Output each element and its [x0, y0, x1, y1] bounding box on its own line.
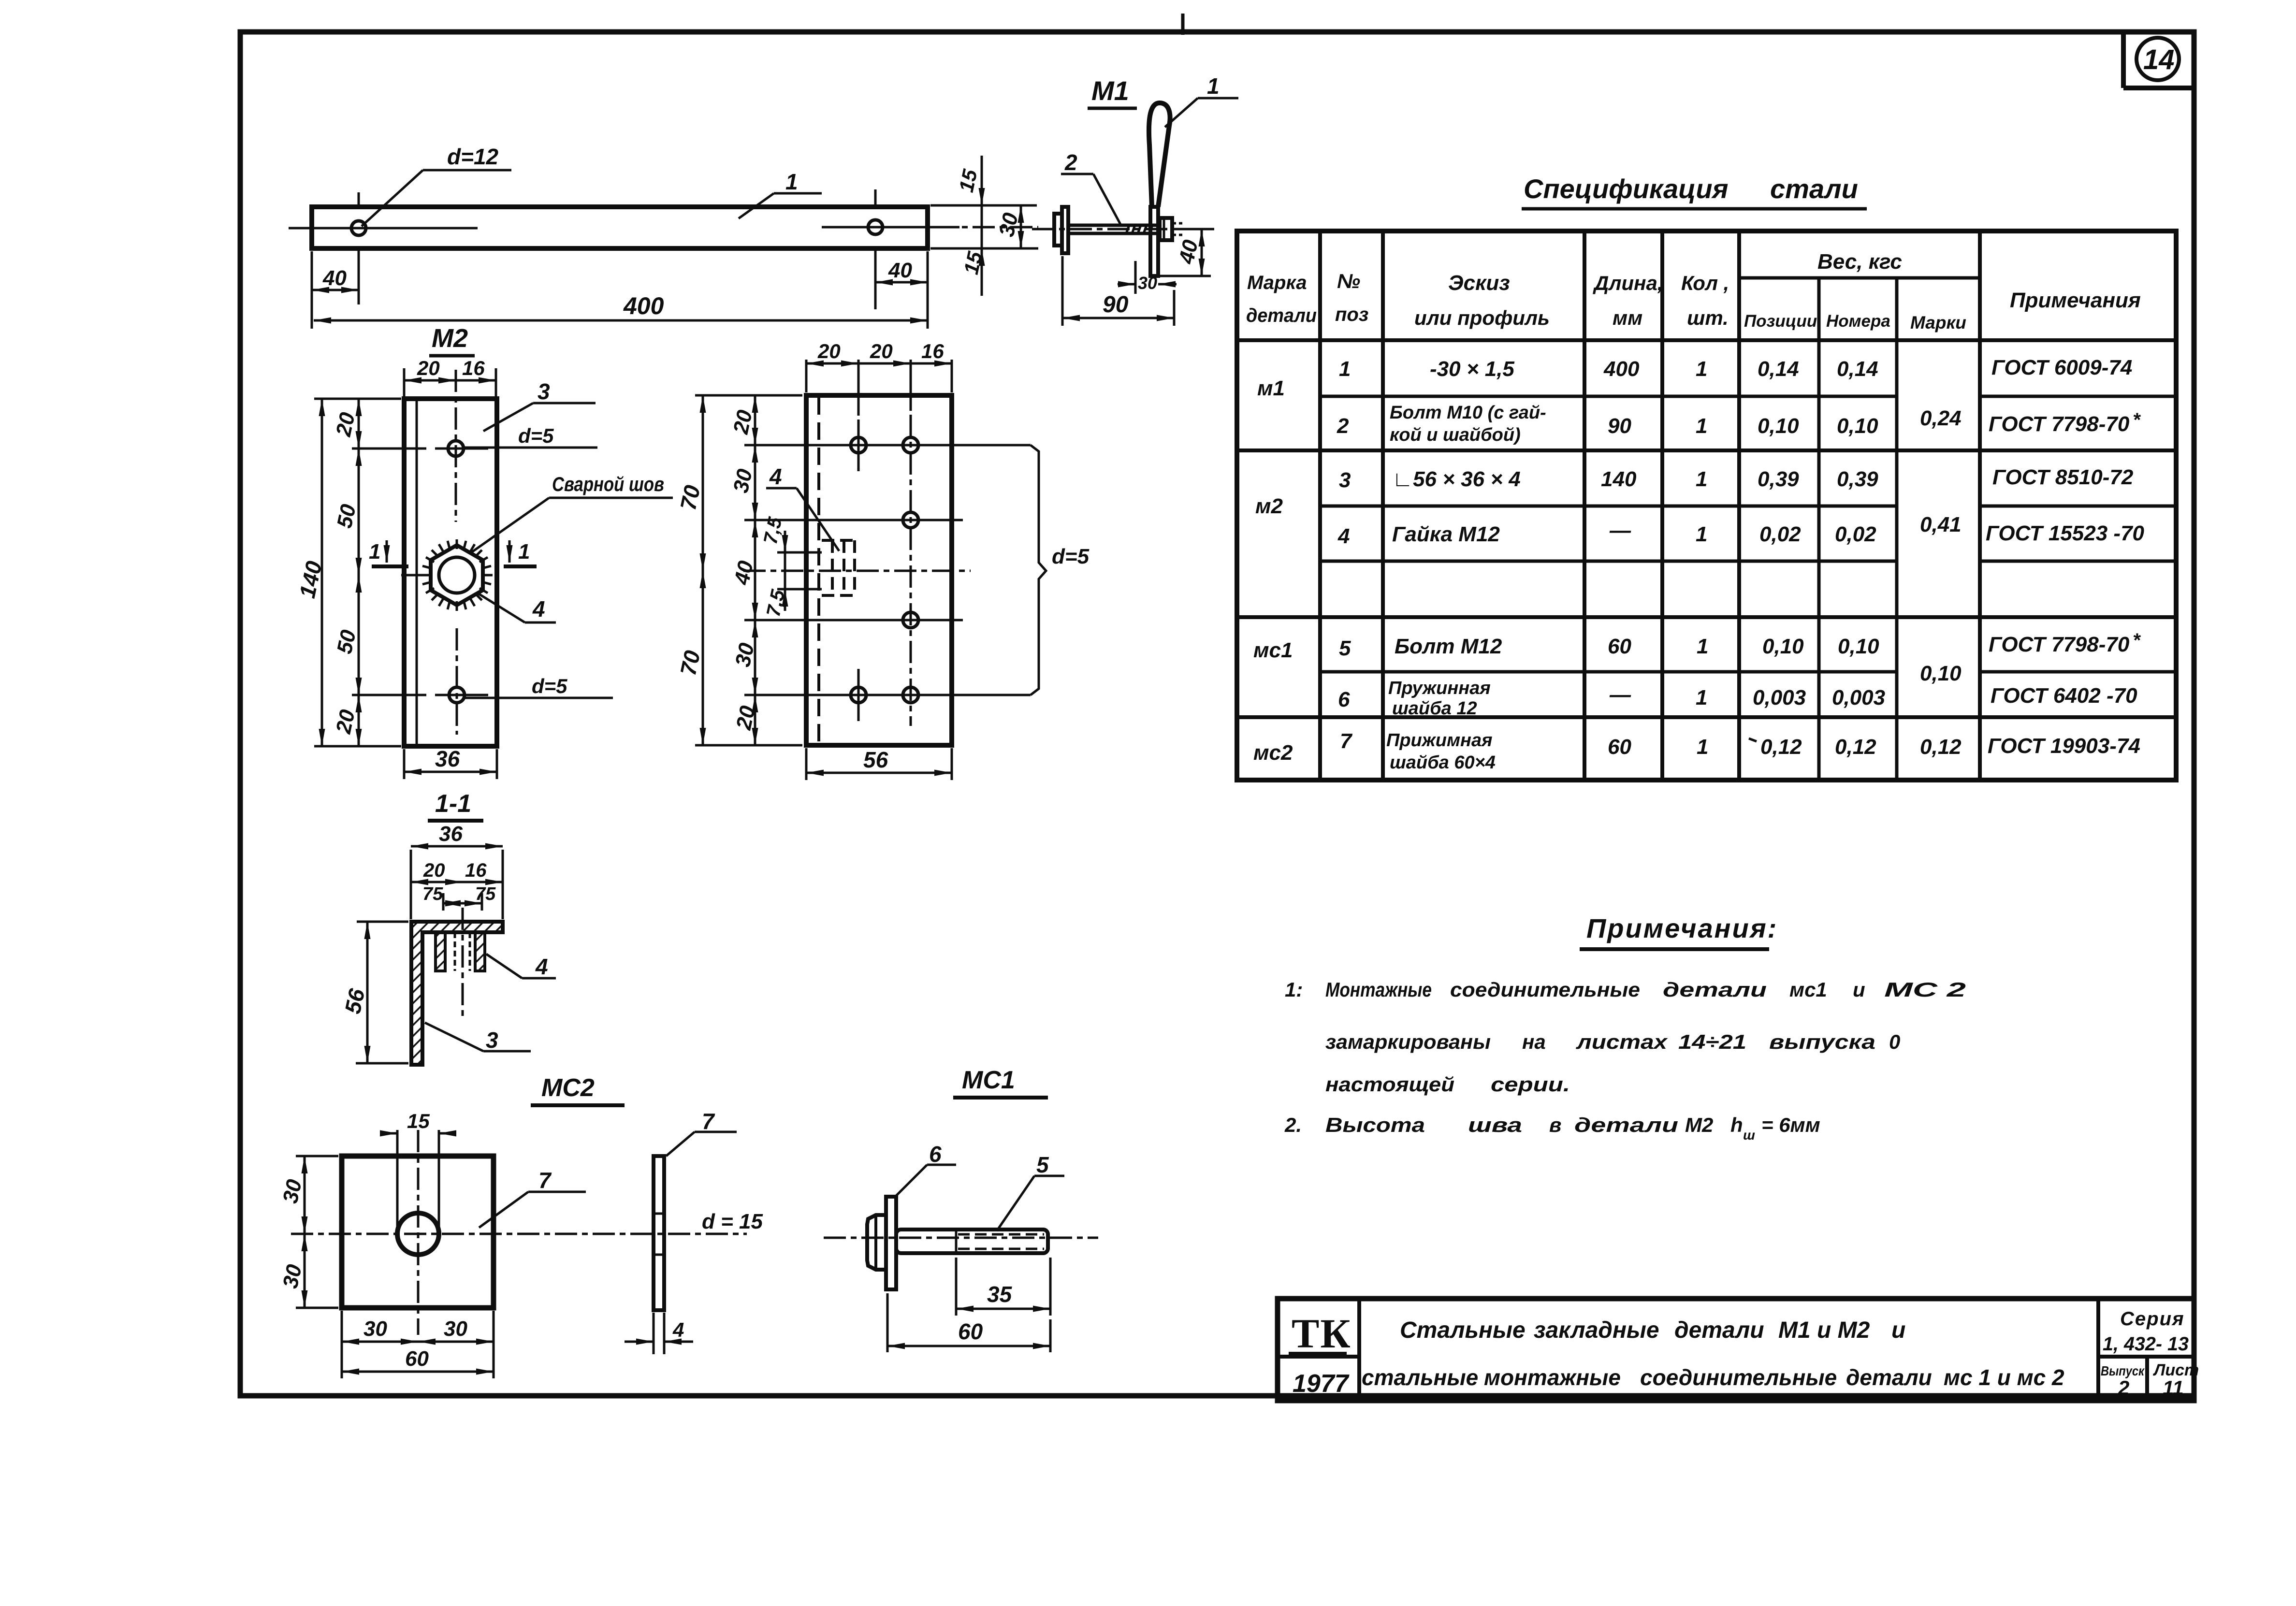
svg-text:60: 60: [1608, 735, 1631, 759]
note 1 line 2: [1325, 1030, 1900, 1053]
svg-text:и: и: [1891, 1317, 1905, 1343]
svg-text:ТК: ТК: [1292, 1310, 1351, 1357]
angle pos.3 plate second view: [806, 395, 952, 745]
svg-text:замаркированы: замаркированы: [1325, 1030, 1491, 1053]
svg-text:d=5: d=5: [518, 424, 554, 447]
notes title: [1580, 913, 1778, 949]
svg-text:= 6мм: = 6мм: [1761, 1114, 1820, 1136]
dimension 140 left: [294, 399, 401, 746]
note 1 line 3: [1325, 1073, 1570, 1096]
svg-text:14÷21: 14÷21: [1678, 1030, 1746, 1053]
svg-text:соединительные: соединительные: [1450, 978, 1640, 1001]
svg-text:серии.: серии.: [1491, 1073, 1570, 1096]
svg-text:1: 1: [518, 540, 530, 564]
dimension 40 M1: [1160, 229, 1211, 276]
svg-text:настоящей: настоящей: [1325, 1073, 1454, 1096]
svg-text:h: h: [1730, 1114, 1743, 1136]
label 2 leader bolt: [1061, 150, 1120, 224]
svg-text:40: 40: [730, 559, 758, 588]
svg-text:20: 20: [423, 860, 445, 881]
svg-text:0,14: 0,14: [1758, 357, 1799, 381]
fold tick mark top border: [1181, 14, 1185, 35]
svg-text:и: и: [1853, 978, 1865, 1001]
svg-text:Монтажные: Монтажные: [1325, 978, 1432, 1001]
svg-text:1: 1: [1696, 522, 1707, 546]
svg-text:Спецификация: Спецификация: [1524, 174, 1729, 204]
svg-text:Пружинная: Пружинная: [1388, 678, 1491, 698]
svg-text:0,24: 0,24: [1920, 406, 1962, 430]
series cell: [2103, 1308, 2189, 1355]
dimension 56 section: [340, 922, 408, 1063]
hole d=5 top M2: [435, 370, 488, 522]
svg-text:№: №: [1337, 270, 1360, 292]
svg-text:20: 20: [417, 357, 440, 379]
svg-text:2: 2: [1064, 150, 1077, 175]
table weight 0,41: [1920, 513, 1962, 536]
svg-text:мс 1 и мс 2: мс 1 и мс 2: [1944, 1365, 2064, 1390]
bolt pos.2 M10: [1054, 207, 1159, 253]
label d=5 top: [464, 424, 597, 448]
svg-text:30: 30: [444, 1317, 467, 1341]
dimension 60 bottom washer: [342, 1347, 494, 1372]
svg-text:2: 2: [1337, 414, 1349, 438]
dimension 15 bottom right: [930, 248, 1038, 296]
svg-text:2: 2: [2118, 1376, 2129, 1399]
svg-text:16: 16: [465, 860, 487, 881]
svg-text:выпуска: выпуска: [1769, 1030, 1875, 1053]
svg-text:1: 1: [1696, 467, 1707, 491]
title block text line 2: [1362, 1365, 2064, 1390]
svg-text:30: 30: [363, 1317, 387, 1341]
svg-text:Высота: Высота: [1325, 1114, 1425, 1136]
svg-text:на: на: [1522, 1030, 1546, 1053]
dimension 90 M1: [1062, 256, 1174, 326]
svg-text:шайба 60×4: шайба 60×4: [1390, 752, 1496, 773]
svg-text:4: 4: [672, 1318, 684, 1341]
dimension 30 30 bottom washer: [342, 1311, 494, 1378]
svg-text:0,02: 0,02: [1835, 522, 1876, 546]
svg-text:шайба 12: шайба 12: [1392, 698, 1477, 719]
svg-text:детали: детали: [1846, 1365, 1932, 1390]
hole d=12 left: [289, 192, 478, 304]
dimension 400 overall: [314, 292, 928, 320]
title 1-1: [428, 790, 483, 821]
svg-text:Примечания: Примечания: [2010, 289, 2141, 312]
washer pos.7 square: [342, 1156, 494, 1308]
svg-text:0,39: 0,39: [1758, 467, 1799, 491]
svg-text:ГОСТ 19903-74: ГОСТ 19903-74: [1988, 734, 2140, 758]
table column marka: [1253, 376, 1293, 765]
svg-text:Болт М10 (с гай-: Болт М10 (с гай-: [1390, 403, 1546, 423]
svg-text:стали: стали: [1770, 174, 1858, 204]
svg-text:∟56 × 36 × 4: ∟56 × 36 × 4: [1392, 467, 1521, 491]
svg-text:15: 15: [407, 1110, 430, 1132]
svg-text:соединительные: соединительные: [1640, 1365, 1837, 1390]
svg-text:90: 90: [1608, 414, 1631, 438]
svg-text:0,003: 0,003: [1832, 686, 1885, 709]
svg-text:м2: м2: [1255, 494, 1283, 518]
svg-text:0,10: 0,10: [1920, 662, 1962, 685]
nut on M1 bolt: [1160, 218, 1182, 240]
section mark 1 left: [369, 540, 408, 566]
dimension 60 bolt: [887, 1293, 1050, 1352]
svg-text:1: 1: [1207, 73, 1220, 99]
hole d=12 right: [822, 189, 959, 309]
dimension 75 75 section: [422, 884, 496, 911]
svg-text:3: 3: [1339, 468, 1351, 492]
table weight 0,24: [1920, 406, 1962, 430]
hole d=15: [397, 1213, 439, 1255]
table row 1 pos.1: [1339, 356, 2132, 381]
svg-text:закладные: закладные: [1534, 1317, 1659, 1343]
svg-text:20: 20: [729, 408, 757, 437]
svg-text:1: 1: [1696, 357, 1707, 381]
title M1: [1088, 75, 1137, 108]
bolt pos.5 shank: [896, 1230, 1048, 1253]
svg-text:1: 1: [1697, 635, 1708, 658]
label 6 leader washer: [894, 1142, 956, 1198]
svg-text:—: —: [1609, 683, 1631, 707]
svg-text:30: 30: [1138, 273, 1157, 293]
centerline bolt axis: [1032, 228, 1214, 231]
dimension 30 M1: [1118, 261, 1177, 294]
label 5 leader bolt: [997, 1152, 1064, 1231]
svg-text:Марки: Марки: [1910, 313, 1966, 333]
svg-text:1: 1: [1697, 735, 1708, 759]
svg-text:400: 400: [623, 292, 664, 319]
svg-text:d=5: d=5: [532, 675, 567, 697]
svg-text:20: 20: [732, 704, 760, 733]
table row 3 pos.3: [1339, 465, 2134, 492]
svg-text:90: 90: [1103, 292, 1129, 318]
svg-text:0,10: 0,10: [1837, 414, 1878, 438]
label 4 leader nut: [477, 593, 556, 622]
dimension 20 20 16 top: [806, 340, 952, 416]
svg-text:16: 16: [462, 357, 485, 379]
label 7 leader edge view: [666, 1109, 737, 1156]
svg-text:1: 1: [369, 540, 380, 564]
hole d=5 row 2: [744, 512, 963, 528]
svg-text:14: 14: [2143, 44, 2175, 75]
svg-text:4: 4: [532, 596, 545, 622]
dimension 20 16 top M2: [404, 357, 496, 396]
svg-text:Марка: Марка: [1247, 272, 1307, 293]
svg-text:Кол ,: Кол ,: [1681, 272, 1729, 294]
strip pos.1 edge view: [1150, 207, 1158, 276]
svg-text:36: 36: [439, 822, 463, 846]
svg-text:0,41: 0,41: [1920, 513, 1962, 536]
svg-text:Эскиз: Эскиз: [1448, 271, 1510, 295]
svg-text:3: 3: [486, 1027, 498, 1053]
section mark 1 right: [504, 540, 537, 566]
svg-text:7: 7: [1340, 729, 1353, 753]
svg-text:детали: детали: [1674, 1317, 1764, 1343]
svg-text:шт.: шт.: [1687, 306, 1729, 329]
sheet number box 14: [2123, 32, 2194, 88]
centerline mid plate: [743, 570, 971, 572]
svg-text:1: 1: [785, 169, 798, 194]
dimension 4 thickness: [625, 1313, 693, 1354]
svg-text:Болт М12: Болт М12: [1395, 635, 1502, 658]
label 3 section: [425, 1023, 531, 1053]
label d=5 bracket: [1031, 445, 1090, 695]
svg-text:1: 1: [1696, 686, 1707, 709]
svg-text:детали: детали: [1246, 305, 1317, 326]
svg-text:*: *: [2133, 409, 2141, 431]
svg-text:75: 75: [422, 884, 443, 904]
svg-text:5: 5: [1036, 1152, 1049, 1177]
label 4 leader hidden nut: [766, 464, 839, 551]
svg-text:-30 × 1,5: -30 × 1,5: [1430, 357, 1514, 381]
svg-text:1-1: 1-1: [435, 790, 471, 818]
hole d=5 bottom M2: [435, 628, 488, 735]
svg-text:60: 60: [958, 1319, 983, 1344]
svg-text:Гайка М12: Гайка М12: [1392, 522, 1500, 546]
svg-text:d=5: d=5: [1052, 545, 1090, 568]
table row 2 pos.2: [1337, 403, 2141, 445]
svg-text:1:: 1:: [1285, 978, 1303, 1001]
svg-text:листах: листах: [1576, 1030, 1668, 1053]
table row 6 pos.5: [1339, 630, 2141, 660]
table row 4 pos.4: [1337, 519, 2145, 548]
nut pos.4 section: [436, 908, 485, 1019]
svg-text:4: 4: [535, 954, 548, 979]
table grid: [1237, 231, 2176, 780]
list cell: [2152, 1361, 2199, 1399]
svg-text:М2: М2: [1685, 1114, 1713, 1136]
svg-text:2.: 2.: [1284, 1114, 1302, 1136]
svg-text:20: 20: [332, 410, 360, 439]
svg-text:ш: ш: [1743, 1128, 1755, 1143]
dimension 30 strip height: [822, 205, 1038, 248]
dimension 40 right: [875, 251, 928, 329]
dimension 15 hole: [380, 1110, 456, 1235]
svg-text:—: —: [1609, 519, 1631, 542]
strip plate pos.1 outline: [312, 207, 928, 248]
svg-text:40: 40: [1175, 238, 1203, 267]
dimension chain 20 30 40 30 20: [729, 395, 760, 745]
svg-text:Прижимная: Прижимная: [1386, 730, 1493, 751]
table header texts: [1246, 250, 2141, 333]
svg-text:Вес, кгс: Вес, кгс: [1817, 250, 1902, 274]
angle pos.3 plate front: [404, 399, 497, 746]
svg-text:7: 7: [538, 1168, 552, 1193]
svg-text:0,12: 0,12: [1835, 735, 1876, 759]
vypusk cell: [2101, 1363, 2145, 1399]
dimension 20 16 section: [411, 860, 503, 882]
table row 8 pos.7: [1340, 729, 2140, 773]
svg-text:40: 40: [322, 266, 347, 290]
svg-text:56: 56: [863, 747, 888, 772]
anchor loop of strip pos.1: [1149, 103, 1170, 207]
label 1 leader anchor: [1165, 73, 1238, 127]
svg-text:МС1: МС1: [962, 1066, 1015, 1094]
svg-text:Номера: Номера: [1826, 312, 1890, 331]
svg-text:ГОСТ 6009-74: ГОСТ 6009-74: [1991, 356, 2132, 379]
title M2: [429, 324, 475, 356]
table title: [1522, 174, 1867, 209]
label d=15: [702, 1210, 763, 1233]
svg-text:5: 5: [1339, 637, 1351, 660]
svg-text:400: 400: [1603, 357, 1640, 381]
washer pos.7 edge view: [654, 1156, 664, 1310]
label 3 leader plate: [483, 379, 596, 431]
svg-text:МС 2: МС 2: [1884, 978, 1966, 1001]
note 2 line: [1284, 1114, 1820, 1143]
svg-text:35: 35: [987, 1282, 1013, 1307]
svg-text:0,10: 0,10: [1758, 414, 1799, 438]
drawing frame border: [240, 32, 2194, 1396]
hole d=5 row 3: [744, 612, 963, 628]
svg-text:стальные: стальные: [1362, 1365, 1478, 1390]
svg-text:20: 20: [332, 708, 360, 737]
svg-text:ГОСТ 15523 -70: ГОСТ 15523 -70: [1986, 521, 2145, 545]
bolt pos.5 head: [867, 1215, 885, 1270]
svg-text:4: 4: [1337, 524, 1350, 548]
title MC1: [953, 1066, 1048, 1098]
svg-text:1: 1: [1696, 414, 1707, 438]
holes d=5 row 1: [744, 420, 1031, 471]
svg-text:Серия: Серия: [2120, 1308, 2185, 1330]
label 7 leader washer: [479, 1168, 586, 1228]
label d=12 with leader: [362, 144, 511, 226]
svg-text:*: *: [2133, 630, 2141, 651]
svg-text:6: 6: [1338, 688, 1350, 711]
dimension 15 top right: [930, 156, 1037, 248]
dimension 70 70 left: [675, 395, 802, 745]
centerline MC1: [824, 1237, 1098, 1239]
angle pos.3 section hatched: [411, 922, 503, 1065]
svg-text:мс2: мс2: [1253, 741, 1293, 765]
svg-text:0,12: 0,12: [1760, 735, 1802, 759]
svg-text:0,02: 0,02: [1759, 522, 1801, 546]
svg-text:7: 7: [702, 1109, 715, 1134]
svg-text:20: 20: [870, 340, 893, 362]
svg-text:60: 60: [405, 1347, 429, 1371]
svg-text:монтажные: монтажные: [1484, 1365, 1621, 1390]
svg-text:40: 40: [888, 259, 912, 282]
table weight 0,10: [1920, 662, 1962, 685]
title block text line 1: [1400, 1317, 1905, 1343]
table row 7 pos.6: [1338, 678, 2137, 719]
svg-text:мс1: мс1: [1789, 978, 1827, 1001]
svg-text:1: 1: [1339, 357, 1351, 381]
svg-text:0,12: 0,12: [1920, 735, 1962, 759]
dimension 40 left: [312, 251, 359, 329]
svg-text:детали: детали: [1663, 978, 1767, 1001]
svg-text:36: 36: [435, 746, 460, 771]
dimension 30 30 left washer: [278, 1156, 338, 1308]
svg-text:Сварной шов: Сварной шов: [552, 473, 664, 495]
svg-text:0,10: 0,10: [1762, 635, 1804, 658]
svg-text:0,10: 0,10: [1838, 635, 1879, 658]
svg-text:м1: м1: [1257, 376, 1285, 400]
svg-text:3: 3: [538, 379, 550, 404]
svg-text:4: 4: [769, 464, 782, 489]
label d=5 bottom: [465, 675, 613, 698]
svg-text:ГОСТ 6402 -70: ГОСТ 6402 -70: [1991, 684, 2137, 708]
svg-text:шва: шва: [1468, 1114, 1522, 1136]
svg-text:d = 15: d = 15: [702, 1210, 763, 1233]
svg-text:Примечания:: Примечания:: [1586, 913, 1778, 943]
svg-text:мм: мм: [1613, 306, 1642, 329]
svg-text:0,39: 0,39: [1837, 467, 1878, 491]
svg-text:75: 75: [475, 884, 496, 904]
svg-text:мс1: мс1: [1253, 638, 1293, 662]
label weld seam (Сварной шов): [471, 473, 673, 552]
svg-text:1, 432- 13: 1, 432- 13: [2103, 1333, 2189, 1355]
dimension chain 20 50 50 20: [332, 399, 426, 746]
dimension 56 bottom: [806, 747, 952, 780]
svg-text:1977: 1977: [1293, 1370, 1350, 1398]
holes d=5 row 4: [744, 669, 1031, 721]
title block frame: [1278, 1299, 2194, 1401]
svg-text:ГОСТ 8510-72: ГОСТ 8510-72: [1992, 465, 2134, 489]
title MC2: [531, 1074, 625, 1105]
svg-text:МС2: МС2: [541, 1074, 595, 1102]
svg-text:60: 60: [1608, 635, 1631, 658]
svg-text:0,14: 0,14: [1837, 357, 1878, 381]
svg-text:11: 11: [2163, 1376, 2184, 1399]
svg-text:ГОСТ 7798-70: ГОСТ 7798-70: [1989, 633, 2130, 656]
dimension 36 section: [411, 822, 503, 919]
svg-text:0: 0: [1889, 1030, 1900, 1053]
centerline hole column: [910, 415, 912, 726]
svg-text:М2: М2: [432, 324, 468, 353]
svg-text:Длина,: Длина,: [1593, 272, 1663, 294]
label 4 section: [486, 954, 556, 979]
svg-text:М1: М1: [1091, 75, 1129, 106]
dimension 35 thread: [956, 1258, 1050, 1316]
centerlines washer: [291, 1130, 747, 1335]
svg-text:16: 16: [921, 340, 944, 362]
svg-text:0,003: 0,003: [1753, 686, 1806, 709]
svg-text:Стальные: Стальные: [1400, 1317, 1526, 1343]
svg-text:кой и шайбой): кой и шайбой): [1390, 425, 1521, 445]
svg-text:поз: поз: [1335, 304, 1368, 325]
dimension 36 bottom M2: [404, 746, 497, 779]
svg-text:d=12: d=12: [447, 144, 499, 169]
svg-text:20: 20: [817, 340, 841, 362]
svg-text:М1 и М2: М1 и М2: [1778, 1317, 1870, 1343]
svg-text:6: 6: [929, 1142, 942, 1167]
svg-text:140: 140: [1601, 467, 1637, 491]
spring washer pos.6: [886, 1197, 896, 1289]
label 1 leader strip: [739, 169, 822, 218]
note 1 line 1: [1285, 978, 1966, 1001]
nut pos.4 with weld: [401, 539, 493, 611]
svg-text:ГОСТ 7798-70: ГОСТ 7798-70: [1989, 412, 2130, 436]
dimension 7,5 7,5: [760, 515, 822, 619]
svg-text:Позиции: Позиции: [1744, 312, 1817, 331]
svg-text:в: в: [1549, 1114, 1561, 1136]
hidden nut pos.4 dashed: [822, 540, 855, 595]
svg-text:детали: детали: [1574, 1114, 1678, 1136]
logo TK 1977: [1289, 1310, 1351, 1398]
svg-text:или профиль: или профиль: [1414, 306, 1550, 329]
